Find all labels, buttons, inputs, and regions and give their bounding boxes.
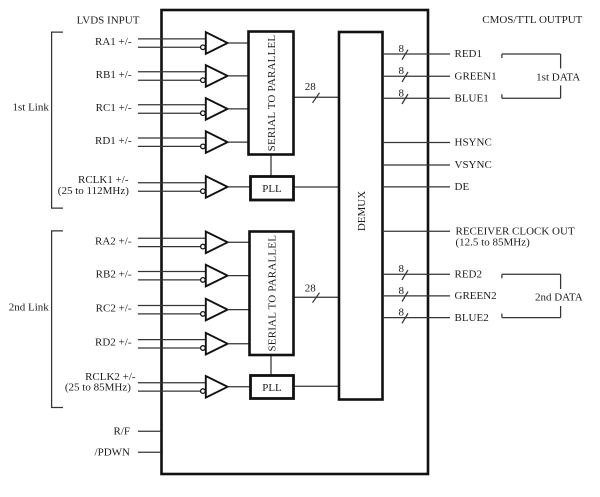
wire STP1 to PLL1 — [270, 154, 272, 177]
svg-text:8: 8 — [399, 65, 405, 77]
wire PLL2 to DEMUX — [294, 385, 340, 387]
svg-text:RB1 +/-: RB1 +/- — [96, 69, 132, 81]
svg-text:(12.5 to 85MHz): (12.5 to 85MHz) — [456, 237, 531, 249]
svg-text:R/F: R/F — [113, 425, 130, 437]
svg-text:RA1 +/-: RA1 +/- — [95, 36, 132, 48]
block SERIAL TO PARALLEL 1 — [249, 32, 294, 155]
buffer U6 RA2 — [138, 232, 250, 254]
buffer U8 RC2 — [138, 299, 250, 321]
svg-text:RB2 +/-: RB2 +/- — [96, 269, 132, 281]
buffer U3 RC1 — [138, 98, 250, 120]
svg-text:DEMUX: DEMUX — [356, 191, 368, 231]
wire RED2 output — [383, 273, 451, 275]
buffer U1 RA1 — [138, 32, 250, 54]
bus width 8 marker RED1 — [399, 43, 408, 60]
svg-text:RD2 +/-: RD2 +/- — [95, 337, 132, 349]
block PLL 1 — [251, 177, 294, 201]
wire HSYNC output — [383, 142, 451, 144]
svg-text:SERIAL TO PARALLEL: SERIAL TO PARALLEL — [267, 235, 279, 352]
wire DE output — [383, 186, 451, 188]
wire BLUE1 output — [383, 97, 451, 99]
wire RECEIVER CLOCK OUT output — [383, 230, 451, 232]
svg-text:GREEN2: GREEN2 — [455, 290, 497, 302]
svg-text:RC1 +/-: RC1 +/- — [96, 102, 132, 114]
bus width 8 marker BLUE2 — [399, 307, 408, 324]
buffer U2 RB1 — [138, 65, 250, 87]
wire GREEN1 output — [383, 75, 451, 77]
svg-text:RC2 +/-: RC2 +/- — [96, 303, 132, 315]
svg-text:RED2: RED2 — [455, 268, 483, 280]
svg-text:CMOS/TTL OUTPUT: CMOS/TTL OUTPUT — [482, 14, 582, 26]
svg-text:LVDS INPUT: LVDS INPUT — [77, 15, 140, 27]
1st DATA bracket — [502, 54, 580, 98]
svg-text:RED1: RED1 — [455, 48, 483, 60]
svg-text:8: 8 — [399, 285, 405, 297]
bus width 8 marker BLUE1 — [399, 87, 408, 104]
wire STP2 to PLL2 — [270, 354, 272, 376]
block PLL 2 — [251, 376, 294, 399]
svg-text:RD1 +/-: RD1 +/- — [95, 135, 132, 147]
bus width 8 marker GREEN1 — [399, 65, 408, 82]
svg-text:PLL: PLL — [262, 382, 282, 394]
svg-text:28: 28 — [305, 283, 317, 295]
svg-text:28: 28 — [305, 81, 317, 93]
svg-text:PLL: PLL — [262, 183, 282, 195]
bus width 8 marker RED2 — [399, 263, 408, 280]
wire bus 28 STP2 to DEMUX — [294, 296, 340, 298]
buffer U4 RD1 — [138, 131, 250, 153]
wire R/F input — [138, 430, 160, 432]
svg-text:GREEN1: GREEN1 — [455, 70, 497, 82]
wire /PDWN input — [138, 451, 160, 453]
wire PLL1 to DEMUX — [294, 186, 340, 188]
svg-text:8: 8 — [399, 307, 405, 319]
2nd Link bracket — [52, 231, 63, 408]
svg-text:DE: DE — [455, 181, 470, 193]
2nd DATA bracket — [502, 274, 583, 317]
svg-text:SERIAL TO PARALLEL: SERIAL TO PARALLEL — [266, 35, 278, 152]
svg-text:(25 to 85MHz): (25 to 85MHz) — [65, 382, 131, 394]
bus width 28 marker link2 — [305, 283, 320, 303]
bus width 28 marker link1 — [305, 81, 320, 103]
wire VSYNC output — [383, 164, 451, 166]
1st Link bracket — [52, 32, 63, 208]
svg-text:2nd Link: 2nd Link — [9, 302, 50, 314]
buffer U10 RCLK2 — [138, 376, 250, 398]
buffer U5 RCLK1 — [138, 176, 250, 198]
svg-text:(25 to 112MHz): (25 to 112MHz) — [58, 185, 129, 197]
svg-text:VSYNC: VSYNC — [455, 159, 492, 171]
wire GREEN2 output — [383, 295, 451, 297]
bus width 8 marker GREEN2 — [399, 285, 408, 302]
svg-text:8: 8 — [399, 263, 405, 275]
svg-text:RA2 +/-: RA2 +/- — [95, 235, 132, 247]
svg-text:BLUE2: BLUE2 — [455, 312, 489, 324]
buffer U9 RD2 — [138, 333, 250, 355]
svg-text:8: 8 — [399, 43, 405, 55]
block DEMUX — [339, 32, 383, 400]
svg-text:1st DATA: 1st DATA — [536, 71, 580, 83]
block SERIAL TO PARALLEL 2 — [250, 232, 294, 356]
svg-text:HSYNC: HSYNC — [455, 137, 492, 149]
wire BLUE2 output — [383, 317, 451, 319]
wire bus 28 STP1 to DEMUX — [294, 96, 340, 98]
svg-text:/PDWN: /PDWN — [95, 446, 131, 458]
svg-text:2nd DATA: 2nd DATA — [535, 292, 583, 304]
buffer U7 RB2 — [138, 265, 250, 287]
wire RED1 output — [383, 53, 451, 55]
svg-text:8: 8 — [399, 87, 405, 99]
svg-text:BLUE1: BLUE1 — [455, 93, 489, 105]
svg-text:1st Link: 1st Link — [13, 101, 50, 113]
chip outline — [162, 10, 429, 474]
